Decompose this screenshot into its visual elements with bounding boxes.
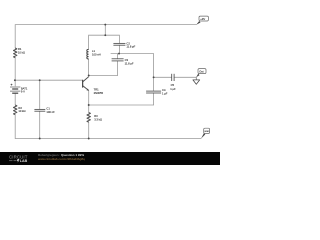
inductor L1 <box>87 49 89 59</box>
svg-text:C5: C5 <box>171 83 175 87</box>
resistor R1 <box>14 48 17 58</box>
junction bottom rail R3 <box>88 138 90 140</box>
junction battery top node <box>14 79 16 81</box>
svg-text:3.3 kΩ: 3.3 kΩ <box>94 117 102 121</box>
junction output node <box>153 76 155 78</box>
capacitor C2 <box>113 43 125 45</box>
svg-text:GND: GND <box>204 131 209 133</box>
capacitor C4 <box>146 91 161 93</box>
svg-text:10 kΩ: 10 kΩ <box>18 51 25 55</box>
svg-text:100 nH: 100 nH <box>92 53 101 57</box>
wire R3 to bottom rail <box>88 122 90 138</box>
junction collector node <box>88 75 90 77</box>
svg-text:C1: C1 <box>46 107 50 111</box>
svg-text:10 kΩ: 10 kΩ <box>18 109 25 113</box>
capacitor C5 <box>172 74 174 81</box>
node flag GND <box>201 133 205 138</box>
svg-text:100 nF: 100 nF <box>46 110 55 114</box>
svg-text:C4: C4 <box>162 88 166 92</box>
svg-text:LAB: LAB <box>20 159 28 163</box>
ground <box>195 77 197 80</box>
junction bottom rail C1 <box>39 138 41 140</box>
node flag +9V <box>196 21 200 25</box>
wire top rail <box>15 25 196 48</box>
wire C3 stem <box>117 54 119 59</box>
wire C2 stem <box>118 45 120 53</box>
wire C1 branch lower <box>39 111 41 138</box>
resistor R2 <box>14 105 17 115</box>
wire R2 to bottom rail <box>14 115 16 139</box>
resistor R3 <box>87 113 90 123</box>
node flag Out <box>196 74 199 78</box>
junction C1 branch node <box>39 79 41 81</box>
footer bar <box>0 152 220 165</box>
wire top jog <box>89 35 120 49</box>
capacitor C3 <box>112 59 124 61</box>
wire out row2 <box>174 76 196 78</box>
wire emitter drop <box>88 91 90 113</box>
wire base <box>15 80 82 82</box>
wire collector row <box>89 59 118 76</box>
svg-text:9 V: 9 V <box>21 89 25 93</box>
junction tank feed split <box>104 34 106 36</box>
svg-text:1 μF: 1 μF <box>170 87 176 91</box>
svg-text:TR1: TR1 <box>94 87 100 91</box>
battery BAT1 <box>10 84 20 94</box>
svg-text:R1: R1 <box>18 47 22 51</box>
wire feed to tank <box>104 25 106 36</box>
transistor TR1 <box>82 80 83 88</box>
svg-text:+9V: +9V <box>200 17 205 21</box>
svg-text:11.8 pF: 11.8 pF <box>125 62 134 66</box>
wire bottom rail <box>15 138 201 140</box>
svg-text:11.8 pF: 11.8 pF <box>126 45 135 49</box>
svg-text:2N3055: 2N3055 <box>94 91 104 95</box>
junction C2-C3 midpoint <box>118 53 120 55</box>
footer logo LAB line <box>9 160 17 162</box>
svg-text:Out: Out <box>199 70 204 74</box>
wire left rail mid <box>14 58 16 87</box>
wire out row <box>154 76 172 78</box>
svg-text:www.circuitlab.com/c/28dud4bg8: www.circuitlab.com/c/28dud4bg8q <box>38 157 85 161</box>
wire C4 to emitter row <box>89 93 154 105</box>
wire C1 branch upper <box>39 80 41 109</box>
junction emitter node <box>88 104 90 106</box>
junction supply rail tap <box>104 24 106 26</box>
svg-text:1 μF: 1 μF <box>162 92 168 96</box>
capacitor C1 <box>34 109 45 111</box>
wire battery to R2 <box>14 93 16 105</box>
wire mid tap <box>111 54 154 92</box>
